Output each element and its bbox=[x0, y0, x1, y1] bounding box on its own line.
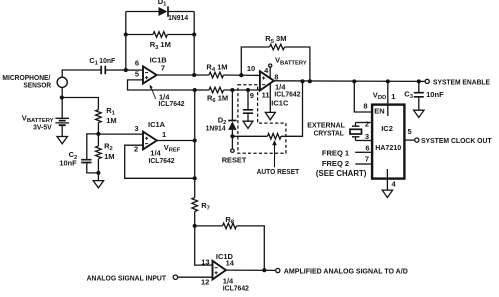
svg-text:IC2: IC2 bbox=[381, 124, 393, 133]
svg-text:SYSTEM ENABLE: SYSTEM ENABLE bbox=[433, 78, 490, 87]
svg-text:RESET: RESET bbox=[222, 155, 247, 164]
wire R3 right bbox=[167, 34, 194, 36]
svg-text:ANALOG SIGNAL INPUT: ANALOG SIGNAL INPUT bbox=[87, 273, 167, 282]
IC2 HA7210 box bbox=[372, 105, 404, 179]
op-amp IC1C bbox=[260, 71, 274, 90]
node vref feedback junction bbox=[193, 176, 197, 180]
wire feedback right vertical bbox=[193, 12, 195, 76]
svg-text:1M: 1M bbox=[104, 152, 114, 161]
svg-text:6: 6 bbox=[135, 59, 139, 68]
wire IC1B output bbox=[157, 74, 209, 76]
resistor R5 bbox=[270, 44, 285, 50]
svg-text:2: 2 bbox=[365, 119, 369, 128]
wire VDD pin1 bbox=[387, 81, 389, 116]
svg-text:1: 1 bbox=[391, 92, 395, 101]
svg-text:4: 4 bbox=[392, 179, 397, 188]
svg-text:10nF: 10nF bbox=[99, 56, 115, 65]
wire pin11 to ground bbox=[269, 84, 271, 113]
svg-text:ICL7642: ICL7642 bbox=[149, 156, 175, 165]
wire IC1C output to system enable bbox=[274, 80, 425, 83]
wire R2 to bottom junction bbox=[97, 159, 99, 181]
wire mic to battery bbox=[61, 88, 63, 119]
wire IC2 pin2 bbox=[356, 122, 372, 124]
crystal symbol bbox=[352, 123, 360, 141]
wire battery to ground bbox=[61, 125, 63, 136]
svg-text:3V-5V: 3V-5V bbox=[33, 123, 52, 132]
node R5 output junction bbox=[308, 79, 312, 83]
svg-text:VREF: VREF bbox=[164, 143, 181, 154]
wire IC1A feedback bbox=[125, 145, 195, 178]
svg-text:HA7210: HA7210 bbox=[375, 143, 401, 152]
wire vref bus bbox=[194, 90, 196, 198]
svg-text:1N914: 1N914 bbox=[206, 124, 227, 133]
node R5 junction bbox=[239, 73, 243, 77]
wire C3 to ground bbox=[418, 97, 420, 110]
capacitor C1 bbox=[101, 66, 105, 74]
node mic bottom junction bbox=[60, 95, 64, 99]
svg-text:IC1C: IC1C bbox=[271, 98, 289, 107]
svg-text:AMPLIFIED ANALOG SIGNAL TO A/D: AMPLIFIED ANALOG SIGNAL TO A/D bbox=[284, 266, 409, 275]
node vref-pin5 junction bbox=[193, 88, 197, 92]
wire to R6 bbox=[195, 89, 209, 91]
svg-text:AUTO RESET: AUTO RESET bbox=[257, 167, 300, 176]
svg-text:7: 7 bbox=[365, 154, 369, 163]
svg-text:13: 13 bbox=[201, 258, 209, 267]
node R3 left junction bbox=[124, 32, 128, 36]
wire mic to C1 bbox=[62, 70, 101, 77]
wire input to IC1D pin12 bbox=[178, 276, 213, 278]
ground below R2 bbox=[93, 181, 103, 188]
auto reset arrow bbox=[274, 144, 276, 168]
node VDD junction bbox=[386, 79, 390, 83]
svg-text:R8: R8 bbox=[225, 215, 234, 226]
op-amp IC1B bbox=[143, 66, 157, 83]
node R1 R2 junction bbox=[96, 132, 100, 136]
diode D2 bbox=[228, 120, 236, 122]
svg-text:R6 1M: R6 1M bbox=[207, 93, 228, 104]
svg-text:VDD: VDD bbox=[373, 90, 386, 101]
svg-text:10nF: 10nF bbox=[426, 90, 444, 99]
svg-text:11: 11 bbox=[262, 91, 270, 100]
ground at IC1C pin11 bbox=[265, 112, 275, 119]
terminal SYSTEM CLOCK OUT bbox=[415, 138, 419, 142]
wire pin4 to terminal bbox=[269, 68, 271, 78]
battery VBATTERY 3V-5V bbox=[55, 118, 69, 123]
svg-text:1: 1 bbox=[162, 130, 166, 139]
dashed auto-reset box bbox=[238, 85, 286, 154]
node C3 junction bbox=[417, 79, 421, 83]
wire junction to IC1A pin3 bbox=[98, 133, 143, 135]
svg-text:ICL7642: ICL7642 bbox=[159, 99, 185, 108]
wire cap to ground bbox=[247, 113, 249, 121]
wire IC1B pin5 jog bbox=[128, 80, 195, 90]
wire IC2 pin4 bbox=[386, 169, 388, 190]
wire EN to IC2 pin8 bbox=[354, 81, 371, 112]
svg-text:6: 6 bbox=[365, 143, 369, 152]
svg-text:4: 4 bbox=[264, 66, 269, 75]
wire IC2 pin6 bbox=[355, 151, 371, 153]
wire IC2 pin3 bbox=[356, 140, 372, 142]
resistor R2 bbox=[96, 146, 102, 159]
svg-text:12: 12 bbox=[201, 277, 209, 286]
ground below cap bbox=[243, 121, 253, 128]
node auto reset resistor junction bbox=[230, 134, 234, 138]
node vref output junction bbox=[193, 138, 197, 142]
svg-text:7: 7 bbox=[161, 63, 165, 72]
microphone/sensor symbol bbox=[57, 77, 67, 87]
svg-text:ICL7642: ICL7642 bbox=[274, 89, 300, 98]
node output feedback junction bbox=[262, 268, 266, 272]
wire D2 top bbox=[231, 90, 233, 121]
leader arrow to IC1B bbox=[151, 87, 156, 99]
svg-text:SENSOR: SENSOR bbox=[23, 81, 51, 90]
capacitor C3 bbox=[414, 93, 424, 97]
resistor R1 bbox=[96, 110, 102, 123]
terminal RESET bbox=[231, 149, 234, 152]
terminal VBATTERY at IC1C bbox=[269, 64, 272, 67]
svg-text:IC1A: IC1A bbox=[148, 120, 166, 129]
wire IC1D output bbox=[226, 269, 275, 271]
wire mic junction to R1 bbox=[62, 98, 99, 110]
svg-text:5: 5 bbox=[135, 69, 139, 78]
node R2 C2 bottom junction bbox=[96, 171, 100, 175]
wire pin1 stub bbox=[387, 105, 389, 116]
node EN junction bbox=[352, 79, 356, 83]
resistor R3 bbox=[153, 32, 167, 38]
terminal ANALOG SIGNAL INPUT bbox=[173, 275, 177, 279]
resistor R7 bbox=[192, 198, 198, 212]
terminal SYSTEM ENABLE bbox=[425, 79, 429, 83]
svg-text:9: 9 bbox=[250, 91, 254, 100]
wire R8 to output bbox=[237, 226, 265, 270]
svg-text:8: 8 bbox=[363, 101, 367, 110]
wire C1 to IC1B pin6 bbox=[105, 69, 143, 71]
op-amp IC1D bbox=[213, 261, 226, 280]
svg-text:14: 14 bbox=[226, 258, 235, 267]
node R8 junction bbox=[193, 224, 197, 228]
svg-text:FREQ 1: FREQ 1 bbox=[322, 148, 349, 157]
svg-text:R2: R2 bbox=[104, 141, 113, 152]
wire C2 top bbox=[87, 134, 99, 160]
capacitor in auto-reset box bbox=[243, 110, 253, 113]
wire R5 loop right bbox=[285, 47, 310, 81]
node pin6 junction bbox=[124, 68, 128, 72]
svg-text:R1: R1 bbox=[106, 106, 115, 117]
svg-text:CRYSTAL: CRYSTAL bbox=[314, 129, 345, 138]
node cap junction on pin9 line bbox=[246, 88, 250, 92]
svg-text:SYSTEM CLOCK OUT: SYSTEM CLOCK OUT bbox=[421, 136, 492, 145]
wire auto-reset resistor left bbox=[232, 135, 267, 137]
svg-text:1N914: 1N914 bbox=[168, 13, 189, 22]
svg-text:D1: D1 bbox=[158, 0, 167, 8]
node auto reset junction bbox=[300, 79, 304, 83]
wire IC1A output bbox=[157, 140, 195, 142]
terminal AMPLIFIED output bbox=[276, 268, 280, 272]
svg-text:(SEE CHART): (SEE CHART) bbox=[316, 169, 367, 178]
svg-text:10: 10 bbox=[247, 64, 255, 73]
wire D1 top right bbox=[168, 11, 194, 13]
wire R5 loop left bbox=[241, 47, 269, 75]
wire R3 left bbox=[126, 34, 153, 36]
svg-text:R4 1M: R4 1M bbox=[206, 63, 227, 74]
svg-text:3: 3 bbox=[135, 124, 139, 133]
resistor R4 bbox=[209, 72, 224, 78]
svg-text:R3 1M: R3 1M bbox=[150, 40, 171, 51]
resistor R8 bbox=[223, 223, 237, 229]
node feedback output junction bbox=[192, 73, 196, 77]
node D2 junction on pin9 line bbox=[230, 88, 234, 92]
wire cap top bbox=[247, 90, 249, 110]
wire D1 top left bbox=[126, 11, 159, 13]
wire R1 to junction bbox=[97, 123, 99, 146]
svg-text:VBATTERY: VBATTERY bbox=[275, 56, 307, 67]
ground below battery bbox=[57, 137, 67, 144]
ground below C3 bbox=[414, 110, 424, 117]
svg-text:3: 3 bbox=[365, 132, 369, 141]
wire IC2 pin7 bbox=[355, 163, 371, 165]
capacitor C2 bbox=[81, 160, 91, 163]
wire R7 to R8 junction bbox=[195, 212, 213, 266]
diode D1 bbox=[159, 7, 168, 16]
wire R6 to IC1C pin9 bbox=[224, 89, 260, 91]
wire D2 to reset bbox=[231, 130, 233, 149]
wire IC2 pin5 bbox=[405, 139, 415, 141]
wire feedback left vertical bbox=[125, 12, 127, 71]
op-amp IC1A bbox=[143, 132, 157, 150]
ground below IC2 pin4 bbox=[382, 190, 392, 197]
svg-text:ICL7642: ICL7642 bbox=[223, 284, 249, 293]
svg-text:EN: EN bbox=[374, 106, 384, 115]
svg-text:R7: R7 bbox=[201, 201, 210, 212]
resistor R6 bbox=[209, 87, 224, 93]
wire R4 to IC1C pin10 bbox=[224, 74, 260, 76]
wire auto-reset resistor right bbox=[281, 81, 303, 136]
wire R8 lead left bbox=[195, 225, 223, 227]
svg-text:10nF: 10nF bbox=[59, 158, 77, 167]
svg-text:FREQ 2: FREQ 2 bbox=[322, 159, 349, 168]
svg-text:5: 5 bbox=[408, 127, 412, 136]
svg-text:C1: C1 bbox=[89, 56, 98, 67]
wire C2 bottom bbox=[87, 163, 99, 173]
svg-text:1M: 1M bbox=[106, 116, 116, 125]
svg-text:C3: C3 bbox=[404, 90, 413, 101]
auto-reset resistor bbox=[268, 134, 282, 140]
node R3 right junction bbox=[192, 32, 196, 36]
wire C3 top bbox=[418, 81, 420, 92]
